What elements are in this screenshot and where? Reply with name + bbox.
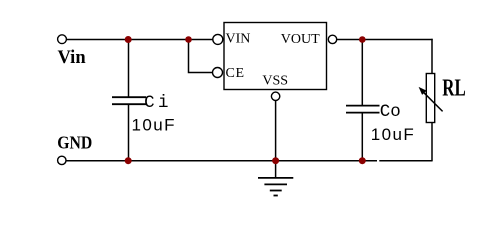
svg-text:Co: Co (380, 102, 401, 122)
svg-text:VIN: VIN (226, 32, 251, 47)
svg-text:VOUT: VOUT (281, 32, 320, 47)
svg-text:VSS: VSS (262, 73, 288, 88)
svg-text:RL: RL (442, 75, 466, 102)
svg-text:GND: GND (57, 132, 92, 152)
svg-text:10uF: 10uF (132, 116, 176, 135)
svg-text:Ci: Ci (144, 93, 172, 113)
svg-text:CE: CE (226, 66, 245, 81)
svg-text:Vin: Vin (58, 48, 87, 68)
svg-text:10uF: 10uF (371, 125, 415, 144)
